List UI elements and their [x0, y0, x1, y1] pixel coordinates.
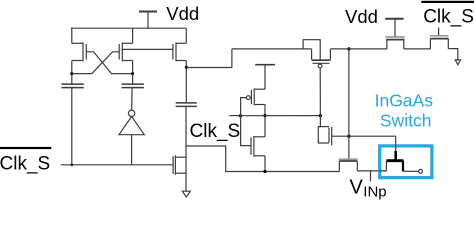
transistor M1 (left of cross-coupled pair): [72, 28, 87, 61]
VINp label: [350, 176, 387, 200]
wire N1 source to bus: [264, 156, 266, 172]
transistor P1 (pmos, bubble gate): [246, 88, 265, 105]
junction node C: [185, 66, 188, 69]
capacitor C3: [176, 103, 197, 173]
inverter U1: [119, 110, 144, 165]
transistor M3 (right leg of latch): [173, 28, 186, 61]
svg-text:Switch: Switch: [380, 111, 432, 131]
transistor N1: [251, 136, 265, 157]
transistor P2 (sideways pmos, bubble below): [312, 49, 331, 68]
arrow terminal: [455, 60, 460, 65]
wire M2 drain to M3 gate: [122, 48, 173, 50]
overlined Clk_S label right: [421, 1, 474, 28]
wire P2 gate down: [319, 68, 321, 127]
junction node A: [70, 72, 73, 75]
transistor P4 (mesfet under Clk_S): [430, 28, 449, 49]
wire P4 right to output arrow: [448, 49, 458, 60]
capacitor C2: [122, 84, 144, 110]
wire label tick Clk_S to V2 node: [229, 115, 240, 117]
junction P1 drain / node E wire: [263, 114, 266, 117]
wire P2 source rail (y=49): [232, 48, 312, 50]
junction N1/bus: [263, 170, 266, 173]
svg-text:V: V: [350, 176, 364, 198]
wire P1 drain column: [264, 105, 266, 137]
wire P1 gate to V2: [241, 98, 251, 146]
junction at top rail: [347, 47, 350, 50]
wire node C up to P2 rail: [231, 49, 233, 68]
transistor P3 (mesfet under Vdd): [385, 37, 405, 49]
wire node C to middle branch: [186, 67, 232, 69]
wire body jog over P2: [303, 40, 320, 60]
transistor N4 (mesfet series switch): [339, 159, 358, 171]
svg-text:INp: INp: [363, 183, 386, 200]
junction V2 node: [239, 114, 242, 117]
junction node E at P2 gate: [319, 114, 322, 117]
wire M4 drain to ground: [185, 173, 187, 191]
junction switch gate node: [347, 135, 350, 138]
wire N3 drain to switch gate node: [332, 135, 396, 137]
node B column (mid): [132, 61, 134, 85]
svg-text:Clk_S: Clk_S: [423, 7, 474, 28]
wire stub to VINp: [370, 171, 372, 182]
Vdd supply symbol right: [385, 19, 404, 37]
wire node D: M4 top to lower bus: [186, 146, 339, 172]
wire M1 gate cross-coupling to node B: [86, 52, 132, 74]
switch device Q5 (thick mesfet): [379, 136, 422, 173]
wire long vertical from P2/P3 rail to N4 gate: [348, 49, 350, 159]
overlined Clk_S label left: [0, 147, 51, 175]
wire Clk_S bus left: [61, 164, 173, 166]
transistor M2 (right of cross-coupled pair): [119, 28, 132, 61]
svg-text:InGaAs: InGaAs: [375, 90, 434, 110]
InGaAs switch box: [380, 146, 432, 178]
wire top rail: [71, 27, 186, 29]
node A column (left): [71, 61, 73, 85]
svg-text:Clk_S: Clk_S: [0, 154, 50, 175]
wire P3 to P4: [404, 48, 431, 50]
wire M2 gate cross-coupling to node A: [72, 52, 119, 74]
junction bus/T1 column: [71, 164, 74, 167]
svg-text:Clk_S: Clk_S: [190, 121, 241, 142]
Vdd supply symbol left: [139, 12, 157, 29]
capacitor C1: [62, 84, 84, 165]
supply tap T middle: [255, 65, 275, 90]
wire node E (y=115.6): [241, 115, 321, 117]
wire N4 right to switch box: [357, 170, 386, 172]
ground: [182, 191, 190, 197]
junction node B: [131, 72, 134, 75]
transistor N3 with gate loop: [318, 127, 331, 146]
wire P2 drain to P3: [330, 48, 387, 50]
wire M3 drain column down: [185, 61, 187, 103]
svg-text:Vdd: Vdd: [345, 6, 378, 27]
transistor M4 (bottom, gate on Clk_S bus): [173, 155, 186, 175]
InGaAs Switch label: [375, 90, 434, 130]
svg-text:Vdd: Vdd: [166, 3, 199, 24]
